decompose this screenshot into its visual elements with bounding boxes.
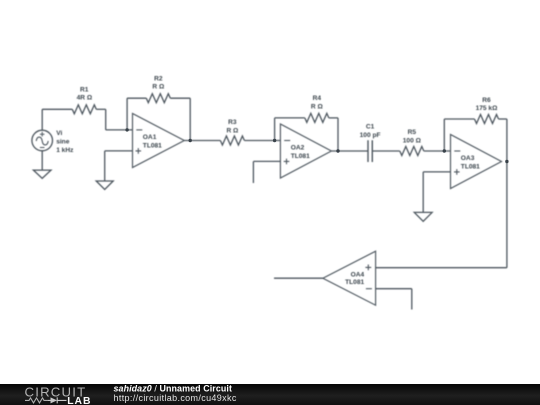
op-amp OA4 [323, 251, 376, 305]
wire Vi top stem [41, 109, 43, 130]
svg-text:TL081: TL081 [291, 153, 310, 160]
svg-text:R3: R3 [228, 119, 237, 126]
label R5 100 ohm [403, 129, 422, 144]
wire OA1 plus down [104, 151, 106, 181]
wire R5 to OA3 inverting input [424, 150, 451, 152]
voltage source Vi [32, 130, 53, 151]
label R4 R ohm [311, 95, 324, 110]
wire Vi to R1 [42, 108, 72, 110]
svg-text:4R Ω: 4R Ω [77, 95, 93, 102]
wire R1 to corner [96, 108, 105, 110]
label OA1 TL081 [143, 134, 162, 149]
svg-text:R5: R5 [408, 129, 417, 136]
OA1 plus mark [136, 148, 142, 154]
wire OA4 minus stub down [411, 289, 413, 310]
svg-text:TL081: TL081 [345, 279, 364, 286]
resistor R3 [220, 136, 244, 145]
wire OA4 output [274, 277, 323, 279]
op-amp OA2 [280, 124, 331, 178]
label R6 175 kohm [476, 97, 499, 112]
OA3 plus mark [454, 169, 460, 175]
junction node OA2 output [336, 149, 339, 152]
junction node OA3 output [505, 160, 508, 163]
ground OA3 plus [414, 212, 432, 221]
svg-text:OA4: OA4 [351, 272, 365, 279]
wire feedback2 top right [329, 117, 338, 119]
OA2 minus mark [284, 140, 290, 142]
wire OA3 output down [506, 162, 508, 268]
svg-text:1 kHz: 1 kHz [56, 147, 74, 154]
wire R3 to OA2 inverting input [244, 140, 280, 142]
op-amp OA3 [451, 135, 502, 189]
svg-text:LAB: LAB [67, 396, 91, 405]
junction node OA2 inverting [273, 139, 276, 142]
junction node OA3 inverting [443, 149, 446, 152]
wire OA2 plus to left [253, 160, 280, 162]
svg-text:http://circuitlab.com/cu49xkc: http://circuitlab.com/cu49xkc [114, 393, 237, 403]
wire feedback2 top left [275, 117, 305, 119]
label OA4 TL081 [345, 272, 364, 287]
op-amp OA1 [133, 114, 185, 168]
CircuitLab logo resistor squiggle [25, 398, 48, 403]
wire OA2 output to C1 [331, 150, 368, 152]
svg-text:175 kΩ: 175 kΩ [476, 105, 499, 112]
svg-text:100 Ω: 100 Ω [403, 137, 422, 144]
wire feedback3 top left [444, 118, 474, 120]
CircuitLab logo diode [51, 397, 58, 403]
svg-text:R4: R4 [313, 95, 322, 102]
label R3 R ohm [226, 119, 239, 134]
wire C1 to R5 [372, 150, 400, 152]
resistor R4 [305, 113, 329, 122]
ground Vi [33, 170, 51, 178]
resistor R2 [146, 94, 170, 103]
wire into OA1 inverting input [106, 129, 133, 131]
svg-text:R Ω: R Ω [152, 84, 165, 91]
label OA2 TL081 [291, 145, 310, 160]
junction node OA1 inverting [125, 128, 128, 131]
wire feedback1 top left [127, 97, 146, 99]
label Vi sine 1 kHz [56, 130, 74, 154]
resistor R6 [475, 115, 499, 124]
svg-text:100 pF: 100 pF [360, 132, 381, 139]
svg-text:sahidaz0 / Unnamed Circuit: sahidaz0 / Unnamed Circuit [114, 383, 233, 393]
svg-text:OA3: OA3 [461, 155, 475, 162]
junction node OA1 output [189, 139, 192, 142]
OA3 minus mark [454, 150, 460, 152]
svg-text:R2: R2 [154, 75, 163, 82]
OA4 plus mark [365, 265, 371, 271]
label C1 100 pF [360, 124, 381, 139]
wire OA2 plus stub down [252, 161, 254, 183]
svg-text:Vi: Vi [56, 130, 62, 137]
svg-text:OA1: OA1 [143, 134, 157, 141]
wire feedback2 up [274, 118, 276, 141]
resistor R1 [72, 105, 96, 114]
wire feedback3 top right [499, 118, 507, 120]
label OA3 TL081 [461, 155, 480, 170]
wire Vi bottom stem [41, 151, 43, 170]
svg-text:sine: sine [56, 139, 70, 146]
OA1 minus mark [136, 129, 142, 131]
wire corner down [105, 109, 107, 130]
wire feedback1 top right [170, 97, 190, 99]
svg-text:R1: R1 [80, 86, 89, 93]
OA4 minus mark [366, 288, 372, 290]
svg-text:C1: C1 [366, 124, 375, 131]
wire feedback1 down to output [189, 98, 191, 140]
capacitor C1 [368, 140, 372, 162]
label R2 R ohm [152, 75, 165, 90]
wire OA4 minus to right [376, 288, 412, 290]
wire OA1 plus to left [105, 150, 133, 152]
wire feedback1 up [126, 98, 128, 130]
wire feedback3 up [443, 119, 445, 151]
label R1 4R ohm [77, 86, 93, 101]
wire feedback3 down to output [506, 119, 508, 162]
svg-text:TL081: TL081 [143, 142, 162, 149]
svg-text:R Ω: R Ω [226, 127, 239, 134]
wire OA3 plus down [422, 172, 424, 213]
wire OA4 plus input [376, 267, 507, 269]
svg-text:OA2: OA2 [291, 145, 305, 152]
footer bar [0, 384, 540, 405]
svg-text:R Ω: R Ω [311, 103, 324, 110]
svg-text:R6: R6 [482, 97, 491, 104]
wire feedback2 down to output [337, 118, 339, 151]
resistor R5 [400, 147, 424, 156]
svg-text:TL081: TL081 [461, 163, 480, 170]
wire OA3 plus to left [423, 171, 450, 173]
ground OA1 plus [96, 181, 113, 189]
wire OA1 output to R3 [184, 140, 220, 142]
OA2 plus mark [284, 159, 290, 165]
